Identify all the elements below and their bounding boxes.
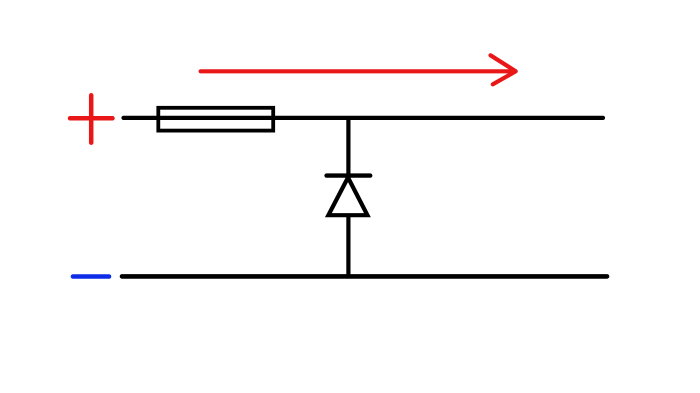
current direction arrow <box>201 55 516 84</box>
wire: bottom rail <box>122 274 607 279</box>
plus terminal (+) <box>70 95 113 142</box>
wire: top rail <box>124 116 604 120</box>
minus terminal (-) <box>73 274 109 279</box>
wire: diode branch vertical <box>346 118 350 276</box>
diode D1 (cathode bar) <box>327 173 371 177</box>
diode D1 (triangle, apex up, open over wire) <box>328 178 367 216</box>
fuse F1 (rectangle over top rail) <box>158 108 273 131</box>
